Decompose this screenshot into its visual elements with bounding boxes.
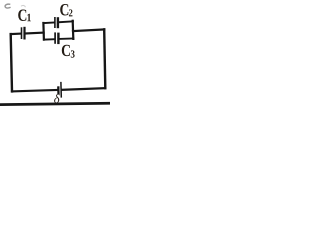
wire: parallel loop left bar: [42, 23, 45, 40]
wire: top-left segment (TL corner to C1 left plate): [11, 32, 21, 35]
label C1: [18, 10, 31, 22]
wire: loop bottom branch right (C3 to right bar): [60, 38, 74, 40]
background: [0, 0, 110, 110]
label delta (EMF): [54, 94, 60, 103]
wire: C1 to parallel-loop left bar: [26, 31, 44, 34]
capacitor C3: [55, 32, 58, 44]
wire: left side (BL to TL corner): [11, 34, 12, 91]
capacitor C1: [22, 27, 25, 40]
wire: parallel loop right bar: [72, 21, 75, 39]
label C2: [60, 4, 72, 16]
battery cell (EMF source): [58, 82, 61, 98]
horizontal rule (page artifact at bottom): [0, 103, 111, 104]
wire: loop bottom branch left (to C3): [44, 38, 54, 40]
wire: bottom left segment (battery to BL corner): [12, 90, 57, 91]
wire: right side (TR to BR corner): [104, 29, 105, 88]
faint text remnant above C1: [21, 5, 26, 7]
capacitor C2: [55, 17, 58, 28]
wire: loop top branch right (C2 to right bar): [59, 20, 73, 23]
label C3: [62, 45, 75, 58]
wire: bottom right segment (BR corner to battery): [62, 88, 106, 90]
wire: loop right bar to TR corner: [73, 29, 104, 31]
faint text remnant top-left: [5, 4, 11, 8]
wire: loop top branch left (to C2): [43, 22, 54, 25]
